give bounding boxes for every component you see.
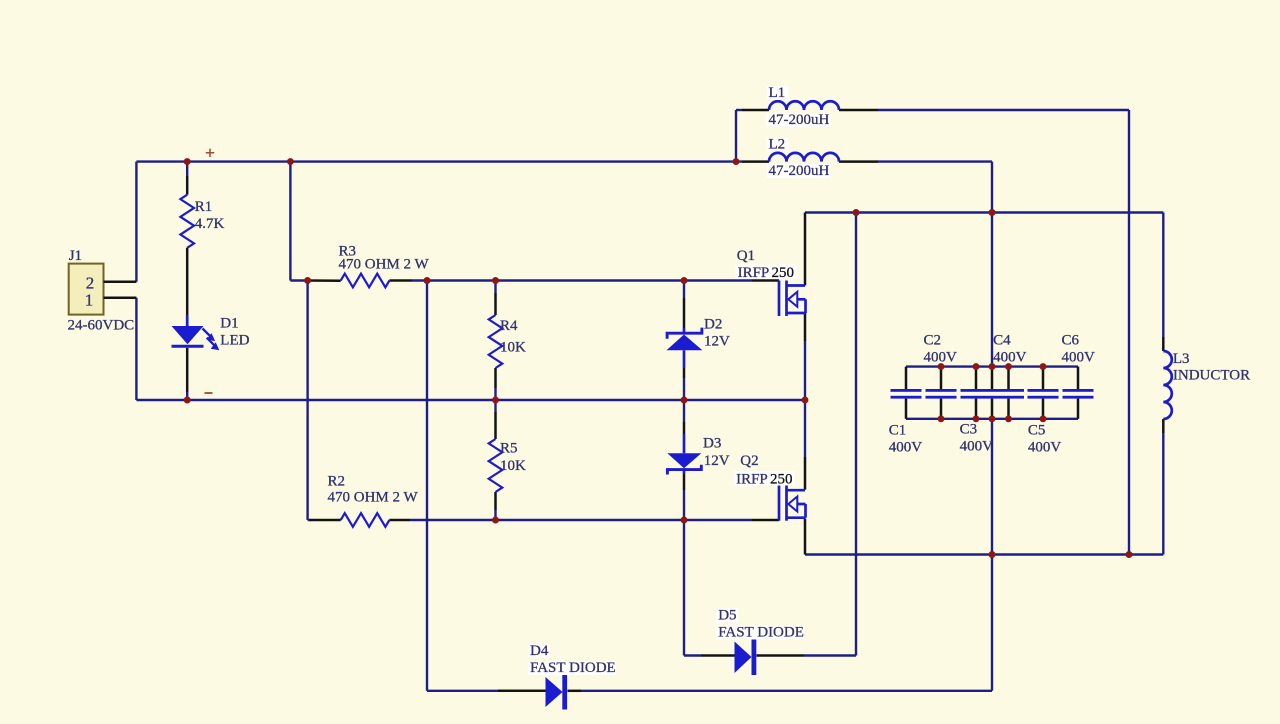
svg-text:400V: 400V xyxy=(889,440,923,456)
svg-text:C5: C5 xyxy=(1028,423,1046,439)
svg-text:47-200uH: 47-200uH xyxy=(769,112,830,128)
svg-text:400V: 400V xyxy=(1062,350,1096,366)
svg-text:D3: D3 xyxy=(703,436,721,452)
svg-text:R5: R5 xyxy=(500,441,518,457)
svg-text:D4: D4 xyxy=(530,643,549,659)
svg-text:400V: 400V xyxy=(924,350,958,366)
svg-text:Q2: Q2 xyxy=(740,453,758,469)
svg-text:L1: L1 xyxy=(769,85,786,101)
svg-text:C1: C1 xyxy=(889,423,907,439)
svg-text:24-60VDC: 24-60VDC xyxy=(68,318,135,334)
svg-text:12V: 12V xyxy=(704,453,730,469)
svg-text:L2: L2 xyxy=(769,137,786,153)
svg-text:400V: 400V xyxy=(960,439,994,455)
svg-text:R1: R1 xyxy=(195,199,213,215)
svg-text:12V: 12V xyxy=(704,334,730,350)
svg-text:C3: C3 xyxy=(960,422,978,438)
svg-text:470 OHM 2 W: 470 OHM 2 W xyxy=(339,257,430,273)
svg-text:R4: R4 xyxy=(500,318,518,334)
svg-text:IRFP: IRFP xyxy=(738,265,770,281)
svg-text:400V: 400V xyxy=(1028,440,1062,456)
svg-text:10K: 10K xyxy=(500,458,526,474)
svg-text:4.7K: 4.7K xyxy=(195,216,225,232)
svg-text:J1: J1 xyxy=(69,248,82,264)
svg-text:IRFP: IRFP xyxy=(736,472,768,488)
svg-text:C2: C2 xyxy=(924,333,942,349)
svg-text:250: 250 xyxy=(770,472,793,488)
svg-text:LED: LED xyxy=(220,333,249,349)
svg-text:FAST DIODE: FAST DIODE xyxy=(530,660,616,676)
svg-text:47-200uH: 47-200uH xyxy=(769,163,830,179)
svg-text:470 OHM 2 W: 470 OHM 2 W xyxy=(328,490,419,506)
svg-text:C6: C6 xyxy=(1062,333,1080,349)
svg-text:INDUCTOR: INDUCTOR xyxy=(1173,368,1250,384)
svg-text:400V: 400V xyxy=(993,350,1027,366)
svg-text:L3: L3 xyxy=(1173,351,1190,367)
svg-text:D5: D5 xyxy=(718,608,736,624)
svg-text:R2: R2 xyxy=(328,474,346,490)
svg-text:C4: C4 xyxy=(993,333,1011,349)
svg-text:Q1: Q1 xyxy=(737,248,755,264)
svg-text:FAST DIODE: FAST DIODE xyxy=(718,625,804,641)
svg-text:1: 1 xyxy=(85,291,94,310)
svg-text:10K: 10K xyxy=(500,340,526,356)
svg-text:250: 250 xyxy=(772,265,795,281)
svg-text:D1: D1 xyxy=(220,316,238,332)
svg-text:D2: D2 xyxy=(704,317,722,333)
